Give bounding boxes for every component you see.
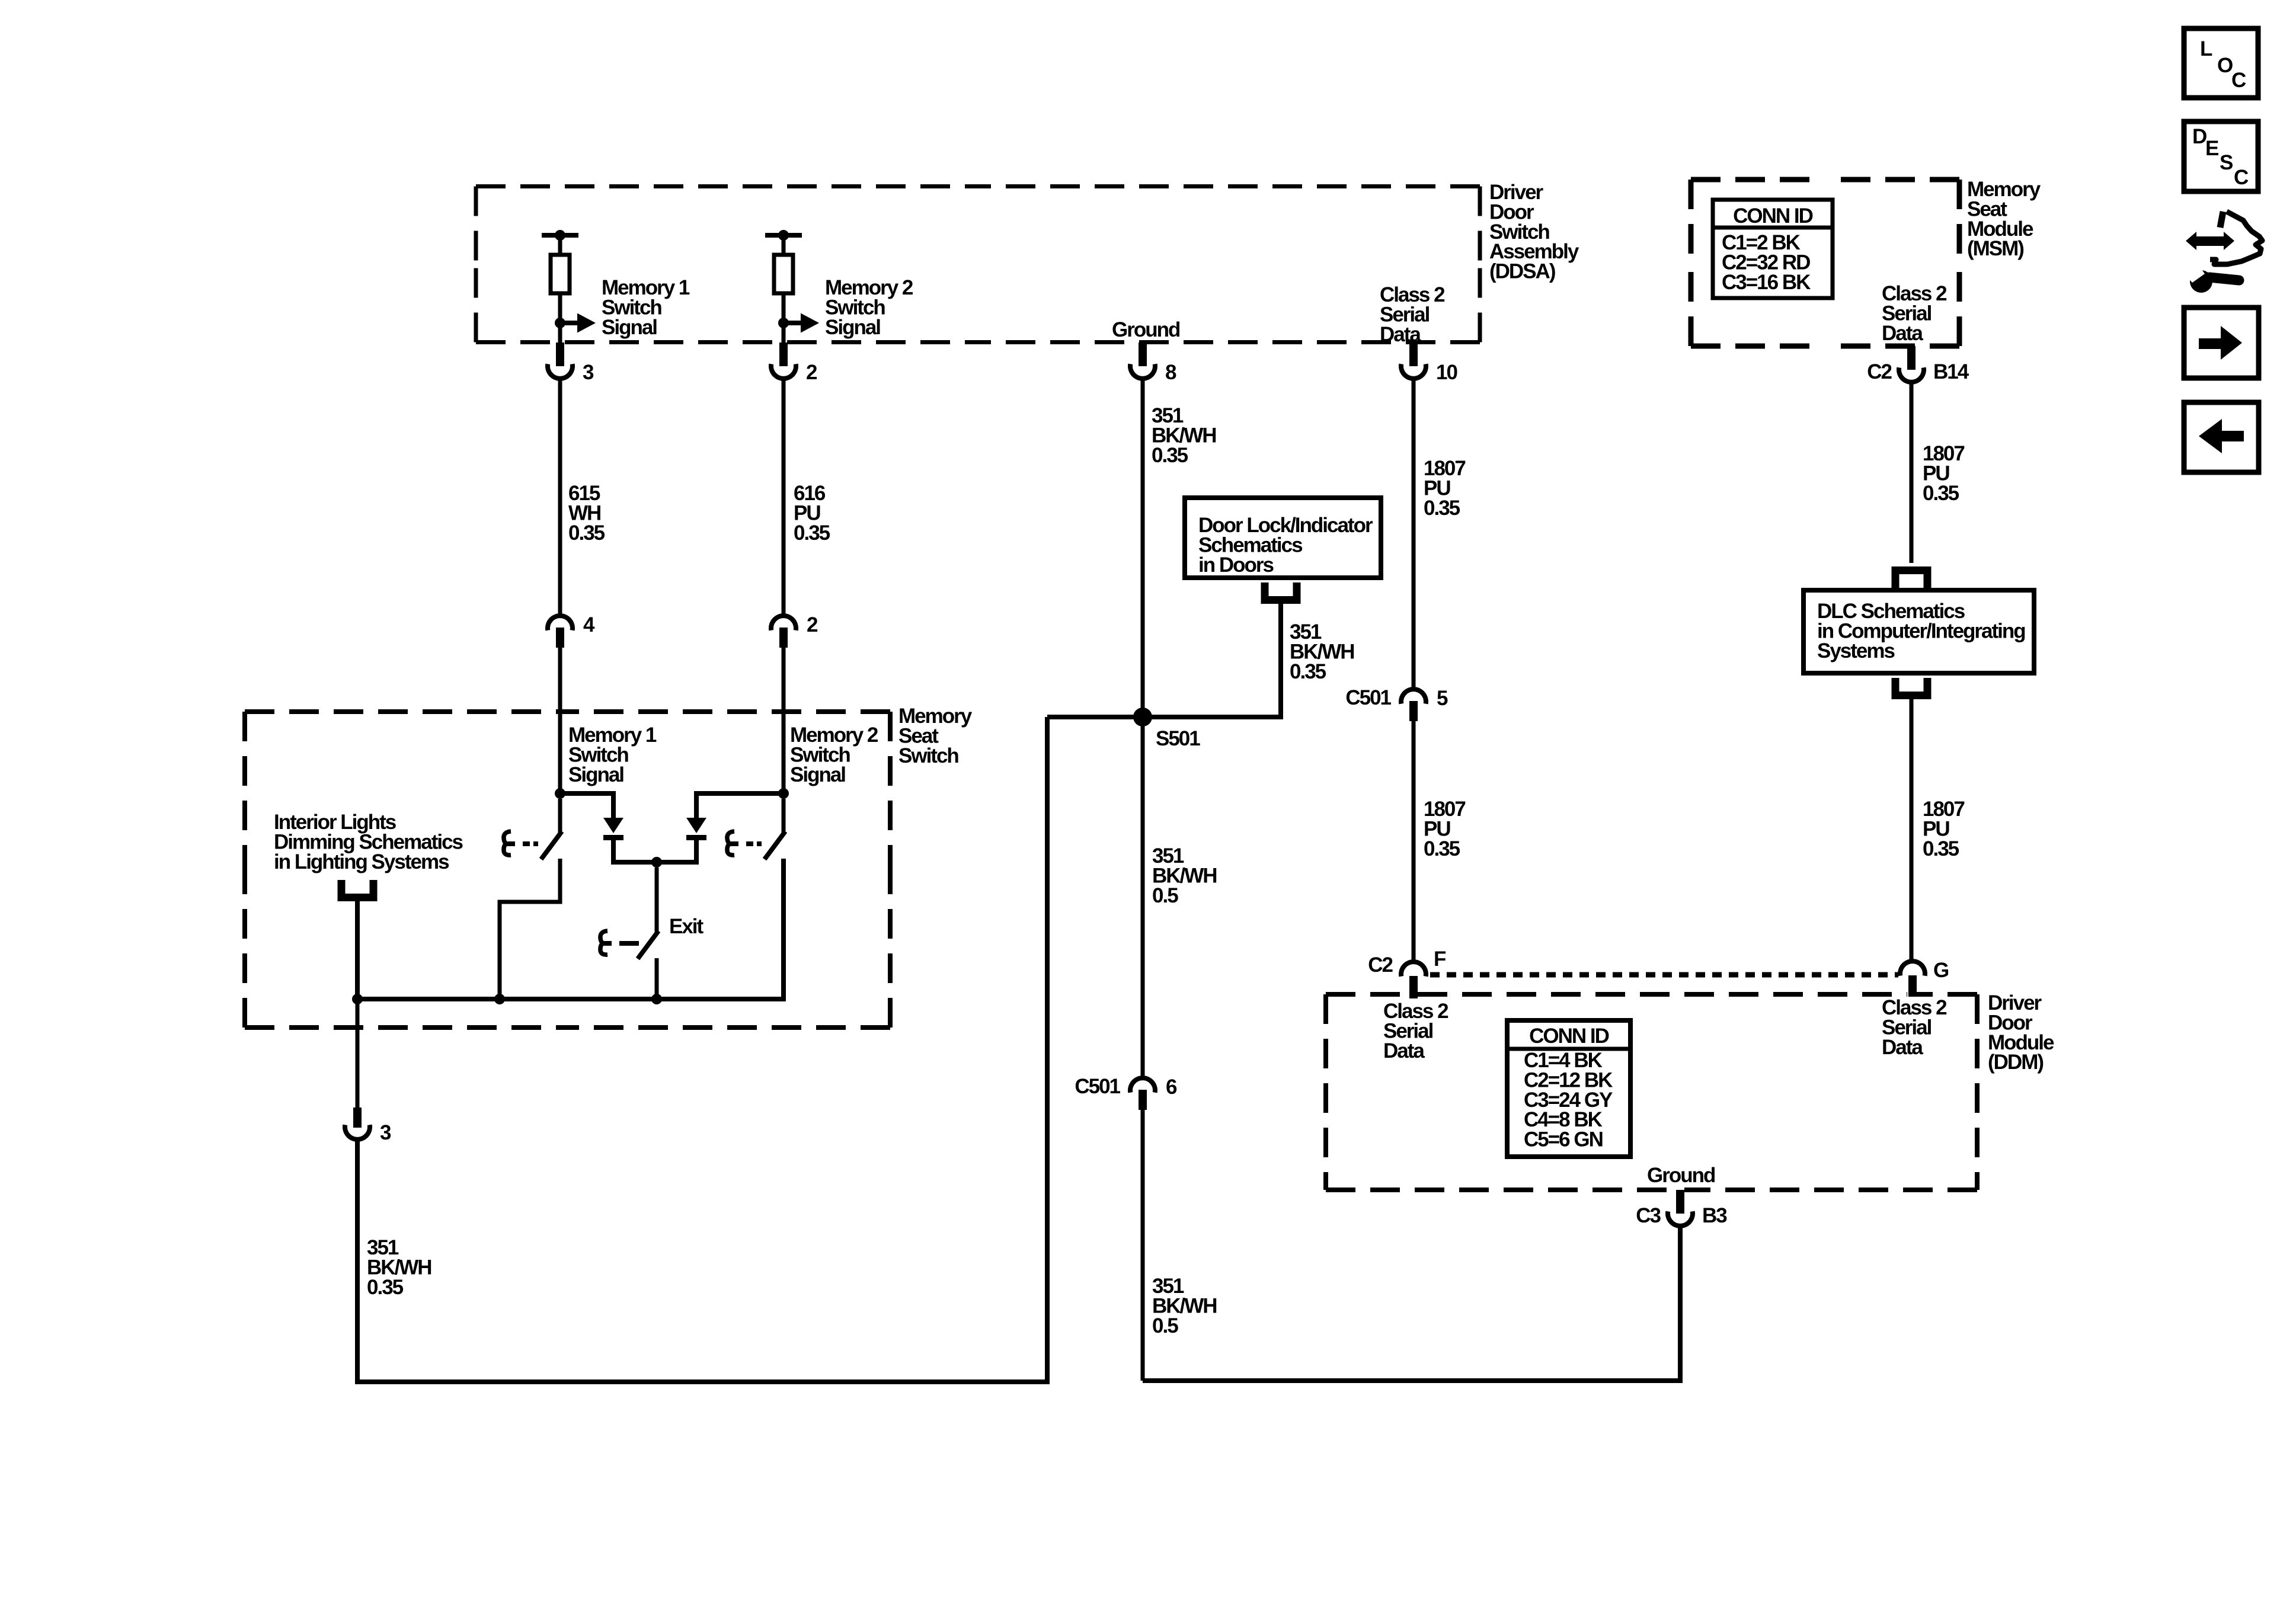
svg-text:G: G — [1933, 959, 1949, 982]
node bus x interior wire — [352, 994, 363, 1004]
wire 1807 PU (pin 10 to C501-5) — [1412, 379, 1416, 687]
svg-text:0.35: 0.35 — [1923, 837, 1959, 860]
switch SW2 (Memory 2) — [727, 831, 785, 859]
wire C501-2 to Memory2 switch node — [782, 647, 786, 793]
svg-text:Ground: Ground — [1112, 318, 1180, 341]
wire label 351 BK/WH 0.35 (pin 8) — [1152, 404, 1216, 467]
diode D2 — [686, 818, 706, 840]
svg-text:C3=16 BK: C3=16 BK — [1722, 271, 1811, 294]
wire Memory1 node to switch SW1 — [558, 799, 562, 833]
signal arrow Memory 2 — [778, 313, 819, 333]
svg-text:2: 2 — [807, 613, 818, 636]
Door Lock/Indicator Schematics in Doors box — [1185, 498, 1381, 578]
wire Memory2 node to switch SW2 — [782, 799, 786, 833]
svg-text:in Lighting Systems: in Lighting Systems — [274, 850, 449, 873]
Class 2 Serial Data label (DDSA pin 10) — [1380, 283, 1445, 346]
icon DESC box — [2184, 121, 2258, 191]
DDM CONN ID table box — [1507, 1020, 1630, 1157]
svg-text:C501: C501 — [1345, 686, 1391, 709]
node exit junction — [651, 857, 662, 868]
wire label 1807 PU 0.35 (MSM) — [1923, 442, 1964, 505]
wire interior lights down to connector 3 — [356, 999, 360, 1108]
wire 1807 PU (DLC to DDM pin G) — [1910, 699, 1914, 962]
off-page fork (Interior Lights dimming) — [341, 880, 373, 999]
Memory 1 Switch Signal label (MSS) — [568, 724, 657, 786]
svg-text:0.35: 0.35 — [1152, 444, 1188, 467]
svg-text:CONN ID: CONN ID — [1733, 204, 1813, 228]
MSM CONN ID table box — [1713, 200, 1833, 298]
svg-text:S: S — [2220, 151, 2233, 174]
connector DDM C3 pin B3 — [1636, 1190, 1727, 1227]
svg-text:C: C — [2231, 69, 2246, 92]
svg-text:0.35: 0.35 — [367, 1276, 404, 1299]
Memory 1 Switch Signal label (DDSA) — [602, 276, 690, 339]
Driver Door Switch Assembly (DDSA) box — [476, 187, 1480, 343]
svg-text:L: L — [2200, 37, 2212, 60]
connector MSM C2 pin B14 — [1867, 346, 1969, 383]
Memory Seat Switch label — [898, 705, 973, 767]
icon back arrow box — [2184, 402, 2259, 472]
wire D2 to Memory2 node — [696, 793, 784, 818]
wire SW2 down to bus corner — [357, 859, 784, 999]
DDSA label — [1489, 181, 1579, 283]
Memory 2 Switch Signal label (MSS) — [790, 724, 878, 786]
svg-text:Ground: Ground — [1647, 1164, 1715, 1187]
svg-text:O: O — [2217, 54, 2233, 77]
svg-text:(DDSA): (DDSA) — [1489, 260, 1555, 283]
switch SW1 (Memory 1) — [504, 831, 562, 859]
svg-text:C501: C501 — [1075, 1075, 1120, 1098]
Door Lock box label — [1198, 514, 1373, 577]
wire S501 left branch to interior-lights bus — [357, 717, 1047, 1382]
wire label 351 BK/WH 0.35 (interior lights) — [367, 1236, 431, 1299]
node bus x SW1 branch — [494, 994, 505, 1004]
connector C501 pin 3 (interior lights) — [345, 1108, 391, 1144]
svg-text:Signal: Signal — [568, 763, 623, 786]
svg-text:F: F — [1434, 948, 1446, 971]
Memory Seat Module (MSM) box — [1691, 180, 1959, 346]
diode D1 — [603, 818, 623, 840]
connector DDM C2 pin F — [1401, 962, 1426, 998]
wire 351 BK/WH 0.35 (Door Lock to S501) — [1047, 604, 1281, 717]
svg-text:S501: S501 — [1156, 727, 1200, 750]
wire SW1 to bus — [500, 859, 560, 999]
wire C501-6 to ground bus — [1141, 1109, 1145, 1381]
svg-text:3: 3 — [583, 361, 594, 384]
svg-text:Data: Data — [1380, 323, 1421, 346]
DDM label — [1988, 991, 2054, 1074]
DDM CONN ID rows — [1524, 1049, 1613, 1151]
wire label 1807 PU 0.35 (to DDM F) — [1424, 798, 1465, 860]
switch Exit — [600, 931, 658, 959]
svg-text:3: 3 — [380, 1121, 391, 1144]
wire label 616 PU 0.35 — [794, 482, 830, 545]
svg-text:D: D — [2192, 125, 2207, 148]
svg-text:0.5: 0.5 — [1152, 884, 1178, 907]
svg-text:Data: Data — [1882, 1036, 1923, 1059]
wire exit node down to Exit switch — [655, 868, 659, 932]
Class 2 Serial Data label (DDM pin F) — [1383, 1000, 1448, 1062]
svg-text:Exit: Exit — [669, 915, 704, 938]
signal arrow Memory 1 — [555, 313, 596, 333]
svg-text:CONN ID: CONN ID — [1529, 1025, 1609, 1048]
svg-text:B3: B3 — [1702, 1204, 1727, 1227]
Class 2 Serial Data label (DDM pin G) — [1882, 996, 1947, 1059]
wire D1 to exit node — [613, 839, 657, 862]
svg-text:B14: B14 — [1933, 360, 1969, 383]
dotted connector line C2 (F to G) — [1430, 972, 1898, 978]
wire B3 to ground bus — [1143, 1226, 1680, 1381]
node Memory2 switch junction — [778, 788, 789, 799]
Memory Seat Switch box — [245, 712, 890, 1028]
svg-text:(MSM): (MSM) — [1967, 237, 2023, 260]
connector C501 pin 6 — [1075, 1075, 1177, 1110]
svg-text:C5=6 GN: C5=6 GN — [1524, 1128, 1603, 1151]
svg-text:8: 8 — [1165, 361, 1176, 384]
svg-text:0.35: 0.35 — [1424, 497, 1460, 520]
wire label 1807 PU 0.35 (upper) — [1424, 457, 1465, 520]
svg-text:C3: C3 — [1636, 1204, 1661, 1227]
off-page fork below DLC box — [1895, 678, 1927, 696]
svg-text:0.35: 0.35 — [794, 521, 830, 545]
wire exit node to diode D2 — [657, 839, 696, 862]
MSM label — [1967, 178, 2041, 260]
svg-text:C2: C2 — [1368, 953, 1393, 977]
svg-text:0.35: 0.35 — [568, 521, 605, 545]
wire label 615 WH 0.35 — [568, 482, 605, 545]
resistor R2 (Memory 2 switch) — [765, 230, 802, 324]
MSM CONN ID rows — [1722, 231, 1811, 294]
svg-text:(DDM): (DDM) — [1988, 1051, 2043, 1074]
svg-text:E: E — [2205, 137, 2218, 160]
svg-text:2: 2 — [806, 361, 817, 384]
wire 616 PU 0.35 (pin 2 to C501-2) — [782, 379, 786, 614]
svg-text:Signal: Signal — [602, 316, 657, 339]
svg-text:in Doors: in Doors — [1198, 553, 1274, 577]
wire R1 to pin 3 — [558, 323, 562, 343]
DDM pin F labels — [1368, 948, 1446, 977]
svg-text:0.5: 0.5 — [1152, 1314, 1178, 1337]
off-page fork (Door Lock schematics) — [1265, 582, 1297, 600]
icon vehicle jump (double arrow + outline + wrench) — [2185, 212, 2262, 293]
Class 2 Serial Data label (MSM) — [1882, 282, 1947, 345]
DLC box label — [1817, 600, 2025, 662]
svg-text:0.35: 0.35 — [1290, 660, 1326, 683]
wire label 1807 PU 0.35 (to DDM G) — [1923, 798, 1964, 860]
svg-text:Systems: Systems — [1817, 639, 1895, 662]
wire connector 3 to lower bus — [356, 1142, 360, 1382]
wire Exit switch to bus — [655, 958, 659, 999]
connector C501 pin 5 — [1345, 686, 1448, 721]
wire label 351 BK/WH 0.5 (below C501-6) — [1152, 1275, 1217, 1337]
wire 1807 PU (B14 to DLC) — [1910, 383, 1914, 563]
Driver Door Module (DDM) box — [1326, 994, 1977, 1190]
wire R2 to pin 2 — [782, 323, 786, 343]
resistor R1 (Memory 1 switch) — [542, 230, 578, 324]
wire C501-4 to Memory1 switch node — [558, 647, 562, 793]
svg-text:0.35: 0.35 — [1923, 482, 1959, 505]
svg-text:Signal: Signal — [825, 316, 880, 339]
svg-text:Data: Data — [1383, 1039, 1425, 1062]
splice S501 — [1133, 708, 1152, 726]
wire label 351 BK/WH 0.5 (above C501-6) — [1152, 844, 1217, 907]
icon LOC box — [2184, 28, 2258, 98]
wire 615 WH 0.35 (pin 3 to C501-4) — [558, 379, 562, 614]
wire Memory1 node to diode D1 — [560, 793, 613, 818]
node Memory1 switch junction — [555, 788, 565, 799]
node bus x Exit branch — [651, 994, 662, 1004]
Memory 2 Switch Signal label (DDSA) — [825, 276, 913, 339]
connector DDM C2 pin G — [1900, 961, 1925, 997]
connector DDSA pin 3 — [548, 343, 594, 384]
icon forward arrow box — [2184, 308, 2259, 378]
connector C501 pin 4 — [548, 613, 595, 648]
off-page fork above DLC box — [1895, 571, 1927, 588]
wire 351 BK/WH (pin 8 through S501 to C501-6) — [1141, 379, 1145, 1076]
svg-text:0.35: 0.35 — [1424, 837, 1460, 860]
svg-text:Switch: Switch — [898, 744, 958, 767]
svg-text:Data: Data — [1882, 322, 1923, 345]
connector DDSA pin 8 — [1130, 343, 1176, 384]
DDM CONN ID separator — [1507, 1047, 1630, 1051]
wire label 351 BK/WH 0.35 (door lock branch) — [1290, 620, 1354, 683]
svg-text:6: 6 — [1166, 1076, 1177, 1099]
svg-text:C: C — [2234, 166, 2249, 189]
wire 1807 PU (C501-5 to DDM pin F) — [1412, 721, 1416, 962]
Interior Lights Dimming label — [274, 811, 463, 873]
svg-text:5: 5 — [1437, 687, 1448, 710]
DLC Schematics box — [1803, 590, 2034, 673]
svg-text:Signal: Signal — [790, 763, 845, 786]
connector DDSA pin 10 — [1401, 343, 1457, 384]
connector C501 pin 2 — [771, 613, 818, 648]
MSM CONN ID separator — [1713, 226, 1833, 230]
svg-text:4: 4 — [583, 613, 595, 636]
svg-text:10: 10 — [1436, 361, 1457, 384]
connector DDSA pin 2 — [771, 343, 817, 384]
svg-text:C2: C2 — [1867, 360, 1892, 383]
